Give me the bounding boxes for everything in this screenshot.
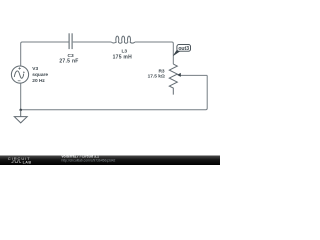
wire from L3 to top-right corner down to R3 top [135, 42, 173, 64]
svg-text:LAB: LAB [23, 161, 32, 165]
plus sign [18, 67, 20, 69]
svg-text:20 Hz: 20 Hz [32, 78, 45, 84]
node out3 flag [173, 45, 190, 56]
wire wiper return right side and bottom [21, 75, 207, 109]
svg-text:27.5 nF: 27.5 nF [59, 59, 78, 65]
capacitor C3 [69, 33, 72, 49]
minus sign [18, 80, 21, 82]
svg-text:175 mH: 175 mH [113, 54, 132, 60]
R3 wiper arrow [177, 73, 207, 77]
wire V3 bottom to ground junction [20, 83, 22, 110]
junction node dot [19, 109, 22, 112]
voltage source V3 [11, 66, 28, 83]
inductor L3 [111, 36, 135, 43]
ground [14, 110, 27, 123]
svg-text:square: square [32, 72, 48, 78]
sine wave with arrow tail [14, 71, 23, 78]
wire from V3 top to C3 left plate [21, 42, 69, 66]
footer bar [0, 156, 220, 166]
svg-text:http://circuitlab.com/c/973b45: http://circuitlab.com/c/973b456q3d42 [62, 158, 116, 162]
svg-text:V3: V3 [32, 66, 38, 72]
wire from C3 to L3 [73, 41, 112, 43]
svg-text:R3: R3 [158, 68, 164, 74]
resistor R3 (potentiometer) zigzag [169, 64, 177, 95]
svg-text:17.5 kΩ: 17.5 kΩ [148, 74, 165, 80]
CircuitLab logo [8, 156, 32, 165]
svg-text:out3: out3 [178, 46, 189, 52]
